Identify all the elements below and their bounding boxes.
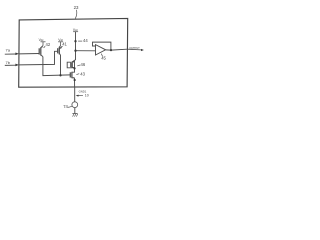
svg-text:10: 10 [85, 94, 89, 98]
svg-text:74: 74 [63, 104, 68, 109]
svg-text:45: 45 [101, 56, 106, 61]
svg-text:42: 42 [46, 42, 51, 47]
svg-text:46: 46 [81, 62, 86, 67]
svg-text:OUTPUT: OUTPUT [129, 46, 140, 50]
svg-text:44: 44 [83, 38, 88, 43]
svg-text:7a: 7a [6, 48, 11, 53]
svg-text:GND1: GND1 [79, 90, 87, 94]
svg-text:43: 43 [80, 71, 85, 76]
svg-text:41: 41 [62, 42, 67, 47]
svg-text:7b: 7b [6, 60, 11, 65]
svg-text:23: 23 [74, 5, 79, 10]
